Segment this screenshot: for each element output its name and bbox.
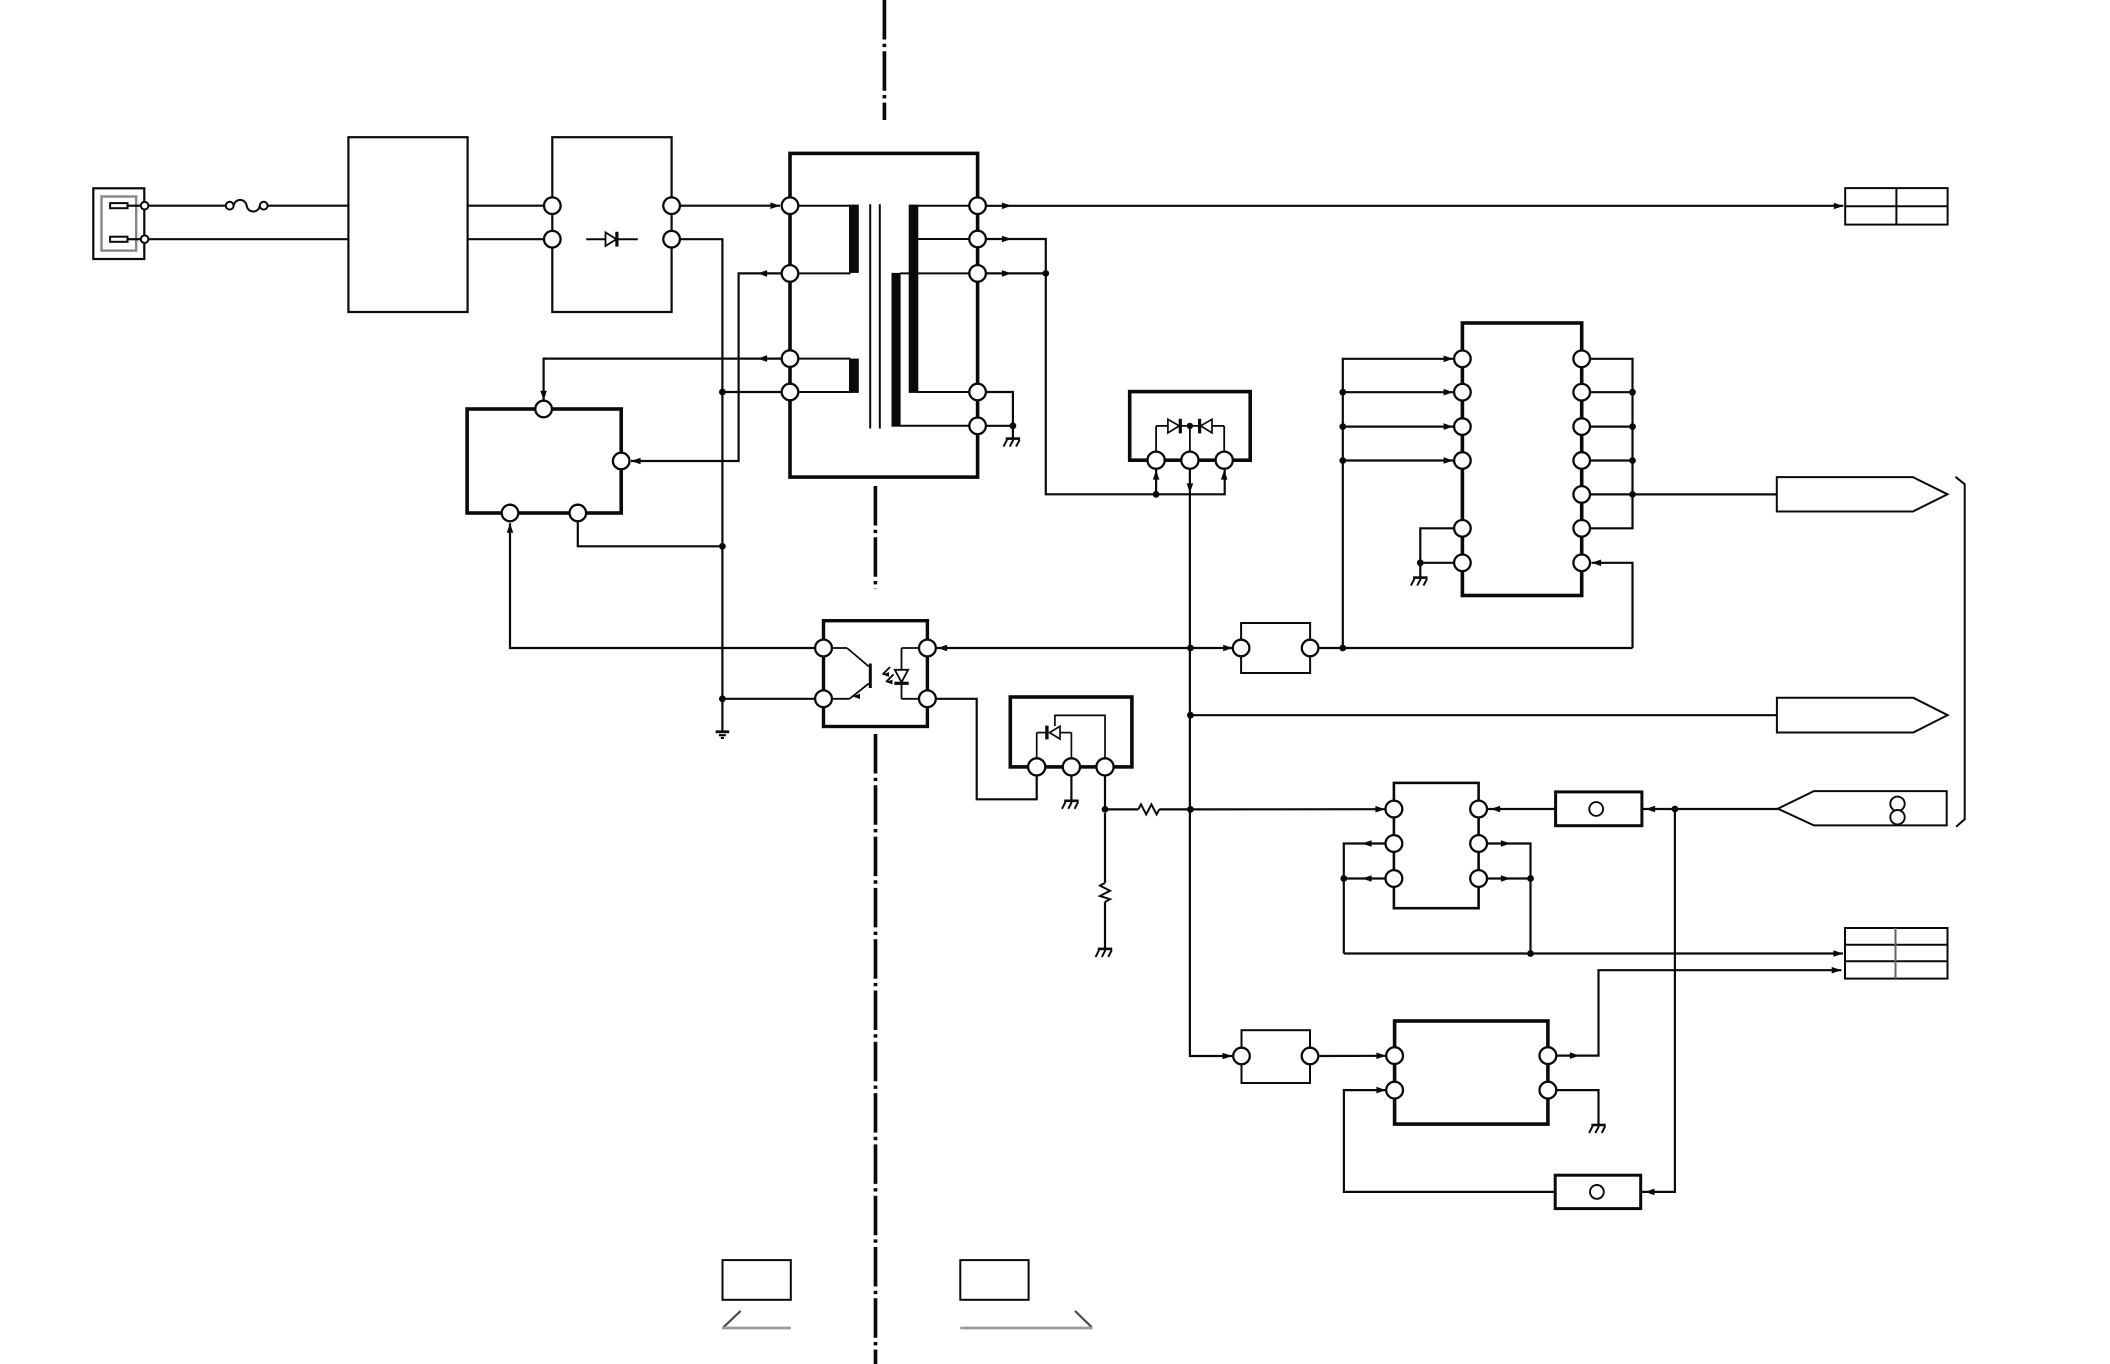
- transformer winding stub pin4': [917, 391, 969, 393]
- wire jumper J2 to IC3 pin 2: [1344, 1087, 1555, 1192]
- monitor icon left: [722, 1260, 791, 1328]
- IC3 right pin 1: [1540, 1047, 1557, 1064]
- wire rectifier bottom rail down primary side: [680, 239, 723, 732]
- connector 1 (output arrow): [1777, 477, 1948, 511]
- wire inlet neutral to line filter: [148, 238, 348, 240]
- transformer winding stub pin2: [798, 272, 850, 274]
- wire opto pin4 to shunt regulator: [936, 699, 1037, 800]
- transformer pin 1': [969, 197, 986, 214]
- wire filter to rectifier (bottom): [468, 238, 544, 240]
- zener diode pair: [1156, 419, 1224, 434]
- opto pin 3 (right top): [919, 640, 936, 657]
- junction dot rail/node B: [1187, 806, 1194, 813]
- junction dot below zener pin 1: [1153, 491, 1160, 498]
- wire PWM bottom pin B to primary rail: [578, 521, 723, 546]
- transformer secondary winding bar (outer): [909, 205, 919, 393]
- junction dot at primary rail / opto emitter: [719, 695, 726, 702]
- wire jumper J1 to connector 3: [1642, 806, 1778, 813]
- junction dot secondary ground: [1010, 422, 1017, 429]
- jumper J3 left pin: [1233, 1048, 1250, 1065]
- wire rail to connector 2: [1190, 714, 1777, 716]
- transformer winding stub pin2': [917, 238, 969, 240]
- IC2 left pin 2: [1386, 835, 1403, 852]
- junction dot node A: [1102, 806, 1109, 813]
- opto pin 2 (left bottom): [815, 690, 832, 707]
- wire fuse to line filter: [268, 205, 349, 207]
- isolation boundary chain line (middle segment): [874, 486, 878, 589]
- IC1 right pin 3: [1573, 418, 1590, 435]
- IC1 left pin 6: [1454, 555, 1471, 572]
- IC1 left pin 2: [1454, 384, 1471, 401]
- rectifier pin 1 (top left): [544, 197, 561, 214]
- riser to zener pin 1: [1153, 470, 1160, 494]
- transformer winding stub pin1': [917, 205, 969, 207]
- opto coupler block: [824, 621, 928, 727]
- wire transformer pin3 to PWM IC top pin: [540, 355, 781, 400]
- transformer pin 5': [969, 418, 986, 435]
- IC1 right pin 6: [1573, 520, 1590, 537]
- shunt pin 1 (left): [1028, 758, 1045, 775]
- jumper link J1 (to connector 3): [1556, 792, 1642, 826]
- wire transformer pin4'/pin5' to secondary ground: [986, 392, 1013, 438]
- wire opto collector to PWM bottom pin A (feedback): [507, 523, 815, 648]
- transformer pin 2: [782, 265, 799, 282]
- opto pin 4 (right bottom): [919, 690, 936, 707]
- resistor R1 (series to comparator): [1105, 804, 1190, 814]
- PWM IC right pin: [613, 453, 630, 470]
- wire secondary rail to opto pin3: [936, 645, 1191, 652]
- wire IC3 pin2 to ground: [1556, 1090, 1598, 1124]
- zener clamp block: [1130, 392, 1251, 461]
- IC1 pins 5/6 tie to ground: [1417, 528, 1454, 577]
- signal ground at shunt: [1062, 801, 1079, 809]
- transformer winding stub pin4: [798, 391, 850, 393]
- IC2 left pin 1: [1386, 801, 1403, 818]
- shunt regulator (TL431) block: [1010, 697, 1132, 767]
- IC1 left pin 5: [1454, 520, 1471, 537]
- wire transformer pin2' to pin3' net: [986, 236, 1046, 274]
- wire inlet line to fuse: [148, 205, 225, 207]
- wire IC2 pin1 from jumper J1: [1487, 806, 1556, 813]
- IC1 right stub pin5 to connector 1: [1590, 491, 1777, 498]
- wire transformer pin2 to PWM IC right pin: [631, 270, 782, 464]
- connector 3 (input arrow with pins): [1778, 791, 1947, 825]
- jumper link J2 (to IC3): [1555, 1175, 1641, 1208]
- transformer winding stub pin3: [798, 358, 850, 360]
- resistor R2 (to ground): [1100, 813, 1110, 948]
- IC3 right pin 2: [1540, 1082, 1557, 1099]
- IC1 right bus stub pin2: [1590, 389, 1636, 396]
- IC2 right pin 3: [1470, 870, 1487, 887]
- IC2 left bus: [1344, 840, 1386, 953]
- PWM IC top pin: [535, 401, 552, 418]
- IC2 right pin 2: [1470, 835, 1487, 852]
- line filter block: [348, 137, 467, 312]
- rectifier block: [552, 137, 671, 312]
- junction dot rail/opto branch: [1187, 645, 1194, 652]
- shunt pin 3 (right): [1096, 758, 1113, 775]
- IC2 right pin 1: [1470, 801, 1487, 818]
- IC3 block (reset/monitor IC): [1395, 1021, 1548, 1124]
- PWM IC bottom pin B: [570, 505, 587, 522]
- rectifier pin 4 (bottom right): [663, 231, 680, 248]
- TL431 symbol: [1037, 715, 1105, 758]
- signal ground at IC3: [1589, 1125, 1606, 1133]
- monitor icon right: [960, 1260, 1092, 1328]
- wire IC3 output to lower connector table: [1556, 967, 1841, 1059]
- IC1 left pin 1: [1454, 351, 1471, 368]
- wire transformer pin4 to primary rail: [722, 391, 781, 393]
- AC inlet connector: [93, 188, 148, 259]
- junction dot pin2'/pin3': [1042, 270, 1049, 277]
- top-right connector table: [1845, 188, 1947, 225]
- transformer pin 3: [782, 350, 799, 367]
- secondary output rail pin1' to connector table: [986, 203, 1844, 210]
- IC1 right pin 5: [1573, 486, 1590, 503]
- transformer pin 1: [782, 197, 799, 214]
- jumper block J3 feeding IC3: [1242, 1030, 1311, 1083]
- IC1 right pin 2: [1573, 384, 1590, 401]
- PWM IC bottom pin A: [502, 505, 519, 522]
- zener block pin 1: [1148, 452, 1165, 469]
- rectifier pin 2 (bottom left): [544, 231, 561, 248]
- PWM control IC block: [467, 409, 621, 513]
- opto LED: [894, 648, 919, 699]
- IC1 right bus stub pin4: [1590, 457, 1636, 464]
- IC2 left pin 3: [1386, 870, 1403, 887]
- transformer auxiliary winding bar (lower): [849, 359, 859, 393]
- primary earth ground symbol: [716, 732, 730, 738]
- IC1 left pin 4: [1454, 452, 1471, 469]
- IC2 right bus: [1487, 840, 1531, 953]
- signal ground at transformer secondary: [1004, 439, 1021, 447]
- IC1 left pin 3: [1454, 418, 1471, 435]
- IC1 left bus stub pin2: [1339, 389, 1453, 396]
- IC1 right bus stub pin3: [1590, 423, 1636, 430]
- zener block internal risers: [1156, 426, 1224, 452]
- rectifier pin 3 (top right): [663, 197, 680, 214]
- isolation boundary chain line (top segment): [883, 0, 887, 120]
- secondary feedback rail from zener pin2 down to jumper block: [1187, 469, 1233, 1060]
- junction dot at primary rail / transformer pin 4: [719, 389, 726, 396]
- fuse F1: [226, 200, 268, 212]
- transformer pin 2': [969, 231, 986, 248]
- diode D1 inside rectifier: [586, 232, 638, 247]
- IC1 block (secondary controller): [1462, 323, 1581, 596]
- wire comparator outputs to lower connector table: [1344, 950, 1843, 957]
- IC2 block (error comparator): [1394, 783, 1479, 908]
- IC1 right pin 7: [1573, 555, 1590, 572]
- signal ground at IC1: [1411, 578, 1428, 586]
- wire opto pin2 to primary rail ground: [722, 698, 815, 700]
- wire transformer pin3' down to zener block feed: [986, 270, 1228, 494]
- vertical wire connector3 net down to jumper J2: [1641, 809, 1675, 1195]
- IC2 left stub pin3: [1340, 875, 1385, 882]
- wire jumper J3 to IC3 pin1: [1318, 1053, 1386, 1060]
- wire interface block to IC1 bus: [1318, 647, 1632, 649]
- wire rail to interface block: [1190, 645, 1232, 652]
- transformer T1 outline: [790, 153, 978, 477]
- lower-right connector table: [1845, 928, 1948, 979]
- wire node B to IC2 pin 1: [1190, 806, 1385, 813]
- IC3 left pin 2: [1386, 1082, 1403, 1099]
- interface block right pin: [1302, 640, 1319, 657]
- junction dot rail/connector2 branch: [1187, 712, 1194, 719]
- zener block pin 2: [1181, 452, 1198, 469]
- jumper J3 right pin: [1302, 1048, 1319, 1065]
- transformer pin 4: [782, 384, 799, 401]
- transformer winding stub pin3': [900, 272, 969, 274]
- wire shunt pin3 to node A: [1104, 776, 1106, 810]
- IC1 left bus: [1343, 356, 1453, 649]
- transformer pin 3': [969, 265, 986, 282]
- isolation boundary chain line (bottom segment): [874, 734, 878, 1364]
- transformer pin 4': [969, 384, 986, 401]
- shunt pin 2 (middle): [1063, 758, 1080, 775]
- IC1 left bus stub pin4: [1339, 457, 1453, 464]
- transformer core lines: [870, 204, 880, 428]
- wire rectifier to transformer pin 1: [680, 202, 780, 209]
- transformer primary winding bar (upper): [849, 205, 859, 273]
- junction dot IC1 left bus bottom: [1339, 645, 1346, 652]
- IC1 right pin 1: [1573, 351, 1590, 368]
- opto light arrows: [883, 667, 894, 684]
- junction dot node B: [1187, 806, 1194, 813]
- zener block pin 3: [1216, 452, 1233, 469]
- riser to IC1 pin 7: [1592, 560, 1633, 649]
- interface block left pin: [1233, 640, 1250, 657]
- signal ground below R2: [1096, 949, 1113, 957]
- transformer secondary winding bar (inner): [892, 273, 901, 427]
- opto pin 1 (left top): [815, 640, 832, 657]
- IC1 left bus stub pin3: [1339, 423, 1453, 430]
- IC2 right stub pin3: [1487, 875, 1534, 882]
- transformer winding stub pin5': [900, 425, 969, 427]
- wire filter to rectifier (top): [468, 205, 544, 207]
- interface block (top): [1241, 623, 1310, 673]
- IC1 right pin 4: [1573, 452, 1590, 469]
- connector 2 (output arrow): [1777, 698, 1948, 733]
- grouping bracket right side: [1956, 477, 1965, 827]
- IC1 right bus: [1590, 359, 1633, 529]
- opto phototransistor: [832, 648, 870, 699]
- transformer winding stub pin1: [798, 205, 850, 207]
- junction dot at primary rail / PWM feedback: [719, 543, 726, 550]
- wire shunt pin2 to ground: [1070, 776, 1072, 801]
- IC3 left pin 1: [1386, 1047, 1403, 1064]
